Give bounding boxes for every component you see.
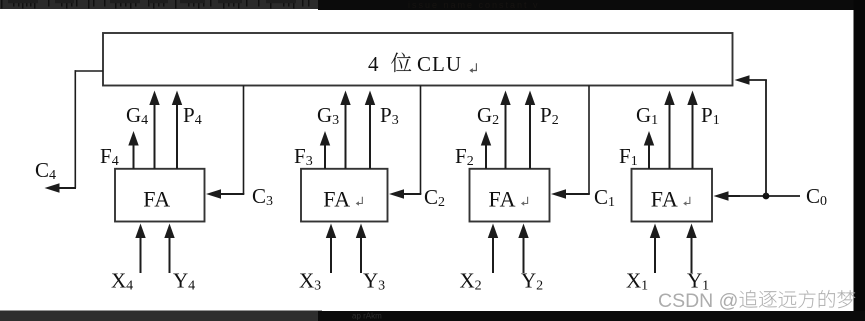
arrow C0 into FA1 right edge xyxy=(727,195,741,197)
arrow into CLU right edge xyxy=(735,75,750,85)
arrow P1 xyxy=(692,103,694,169)
C4 output arrow xyxy=(58,187,77,189)
wire from CLU left edge out to C4 xyxy=(75,70,104,72)
svg-text:FA: FA xyxy=(651,187,679,212)
svg-text:issue name constant v: issue name constant v xyxy=(408,0,540,10)
bottom dark strip xyxy=(0,311,322,321)
wire C1 from CLU down xyxy=(588,86,590,195)
arrow C2 into FA right edge xyxy=(402,193,421,195)
wire from junction up to CLU right xyxy=(765,80,767,196)
svg-text:FA: FA xyxy=(143,187,171,212)
arrow X4 input xyxy=(140,236,142,273)
right black edge bar xyxy=(854,0,865,321)
return mark in FA box (bit 1) xyxy=(683,197,690,206)
arrow F2 (sum out) xyxy=(485,144,487,169)
svg-text:FA: FA xyxy=(489,187,517,212)
arrow P4 xyxy=(176,103,178,169)
arrow G1 xyxy=(669,103,671,169)
arrow F1 (sum out) xyxy=(648,144,650,169)
arrow P2 xyxy=(529,103,531,169)
arrow Y3 input xyxy=(360,236,362,273)
svg-text:CSDN @: CSDN @ xyxy=(658,290,738,312)
svg-text:CLU: CLU xyxy=(417,52,462,76)
arrow F4 (sum out) xyxy=(133,144,135,169)
FA box (bit 3) xyxy=(301,169,388,222)
top toolbar strip (cropped dark bar) xyxy=(0,0,322,9)
4-bit CLU box xyxy=(103,33,733,86)
arrow Y1 input xyxy=(691,236,693,273)
wire C3 from CLU down xyxy=(243,86,245,195)
arrow C1 into FA right edge xyxy=(564,193,590,195)
arrow G2 xyxy=(505,103,507,169)
arrow X2 input xyxy=(492,236,494,273)
wire C2 from CLU down xyxy=(420,86,422,195)
junction node on C0 wire xyxy=(763,193,770,200)
FA box (bit 1) xyxy=(632,169,713,222)
arrow Y2 input xyxy=(523,236,525,273)
arrow C3 into FA right edge xyxy=(219,193,244,195)
arrow F3 (sum out) xyxy=(324,144,326,169)
arrow Y4 input xyxy=(169,236,171,273)
return mark in FA box (bit 3) xyxy=(356,197,363,206)
svg-text:4: 4 xyxy=(368,52,380,76)
svg-text:ap rAkm: ap rAkm xyxy=(352,312,382,321)
arrow X3 input xyxy=(330,236,332,273)
arrow X1 input xyxy=(654,236,656,273)
svg-text:FA: FA xyxy=(323,187,351,212)
FA box (bit 2) xyxy=(470,169,550,222)
arrow G3 xyxy=(345,103,347,169)
toolbar tick marks xyxy=(1,0,310,9)
FA box (bit 4) xyxy=(115,169,205,222)
return mark in FA box (bit 2) xyxy=(521,197,528,206)
wire C0 horizontal xyxy=(729,195,800,197)
arrow P3 xyxy=(369,103,371,169)
return mark after CLU xyxy=(469,63,476,73)
arrow G4 xyxy=(154,103,156,169)
